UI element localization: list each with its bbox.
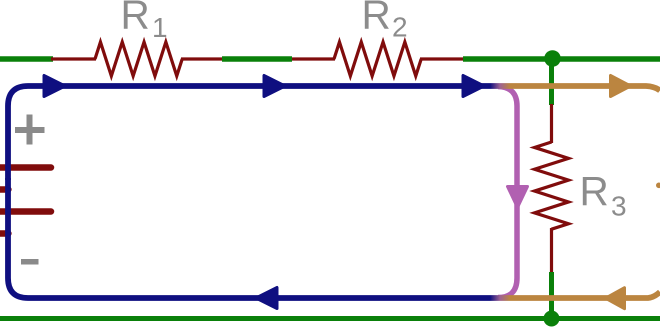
svg-text:R: R — [121, 0, 150, 38]
svg-text:R: R — [362, 0, 391, 38]
svg-text:1: 1 — [152, 12, 168, 43]
svg-text:3: 3 — [611, 191, 627, 222]
svg-text:R: R — [580, 168, 609, 214]
svg-text:2: 2 — [392, 12, 408, 43]
